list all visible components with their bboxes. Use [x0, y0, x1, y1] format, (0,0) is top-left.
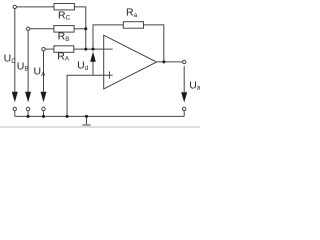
- resistor RB: [54, 26, 74, 32]
- terminal bottom B: [26, 107, 29, 110]
- wire T1 to RC: [17, 6, 54, 8]
- arrowhead UC down: [12, 92, 18, 102]
- wire T3 to RA: [45, 48, 54, 50]
- terminal input C: [13, 5, 16, 8]
- arrowhead Ud up: [90, 52, 96, 62]
- junction node rail A: [42, 115, 45, 118]
- svg-text:UA: UA: [34, 66, 47, 78]
- terminal input B: [26, 27, 29, 30]
- junction node output: [162, 60, 165, 63]
- terminal output: [183, 60, 186, 63]
- page rule line: [0, 126, 200, 128]
- wire feedback branch up: [93, 25, 123, 49]
- ground rail wire: [15, 115, 184, 117]
- wire RB to summing node: [74, 28, 86, 30]
- resistor RC: [54, 4, 74, 10]
- terminal bottom C: [13, 107, 16, 110]
- wire T2 to RB: [30, 28, 54, 30]
- svg-text:Ud: Ud: [77, 60, 89, 72]
- stub A to rail: [43, 111, 45, 117]
- wire input B down: [27, 31, 29, 92]
- plus sign non-inverting input: [108, 72, 110, 79]
- wire RC to summing column: [74, 7, 85, 29]
- wire non-inverting input to ground rail, plus marking: [67, 75, 113, 116]
- junction node rail ground: [85, 115, 88, 118]
- stub output terminal to rail: [183, 111, 185, 117]
- op-amp U1: [104, 35, 157, 89]
- svg-text:UB: UB: [17, 60, 29, 72]
- Ud voltage arrow stem: [92, 62, 94, 76]
- terminal bottom A: [42, 107, 45, 110]
- arrowhead Ua down: [181, 92, 187, 102]
- wire input C down: [14, 9, 16, 92]
- junction node rail B: [27, 115, 30, 118]
- stub B to rail: [27, 111, 29, 117]
- arrowhead UB down: [25, 92, 31, 102]
- Ua voltage arrow stem: [183, 66, 185, 92]
- wire input A down: [43, 51, 45, 92]
- wire op-amp output: [157, 61, 183, 63]
- svg-text:Ua: Ua: [189, 79, 200, 91]
- ground bar: [82, 124, 90, 126]
- resistor RA: [54, 46, 74, 53]
- stub C to rail: [14, 111, 16, 117]
- terminal input A: [42, 48, 45, 51]
- terminal bottom output: [183, 107, 186, 110]
- junction node RB/RC: [84, 27, 87, 30]
- resistor Ra feedback: [123, 22, 143, 29]
- arrowhead UA down: [41, 92, 47, 102]
- junction node RA summing: [84, 48, 87, 51]
- wire Ra to output node: [144, 25, 164, 62]
- wire summing column: [85, 29, 87, 49]
- ground stem: [86, 116, 88, 124]
- wire RA to op-amp inverting input, minus marking: [74, 48, 113, 50]
- svg-text:RC: RC: [58, 9, 71, 21]
- junction node feedback: [92, 48, 95, 51]
- junction node rail noninv: [66, 115, 69, 118]
- svg-text:Ra: Ra: [126, 7, 138, 19]
